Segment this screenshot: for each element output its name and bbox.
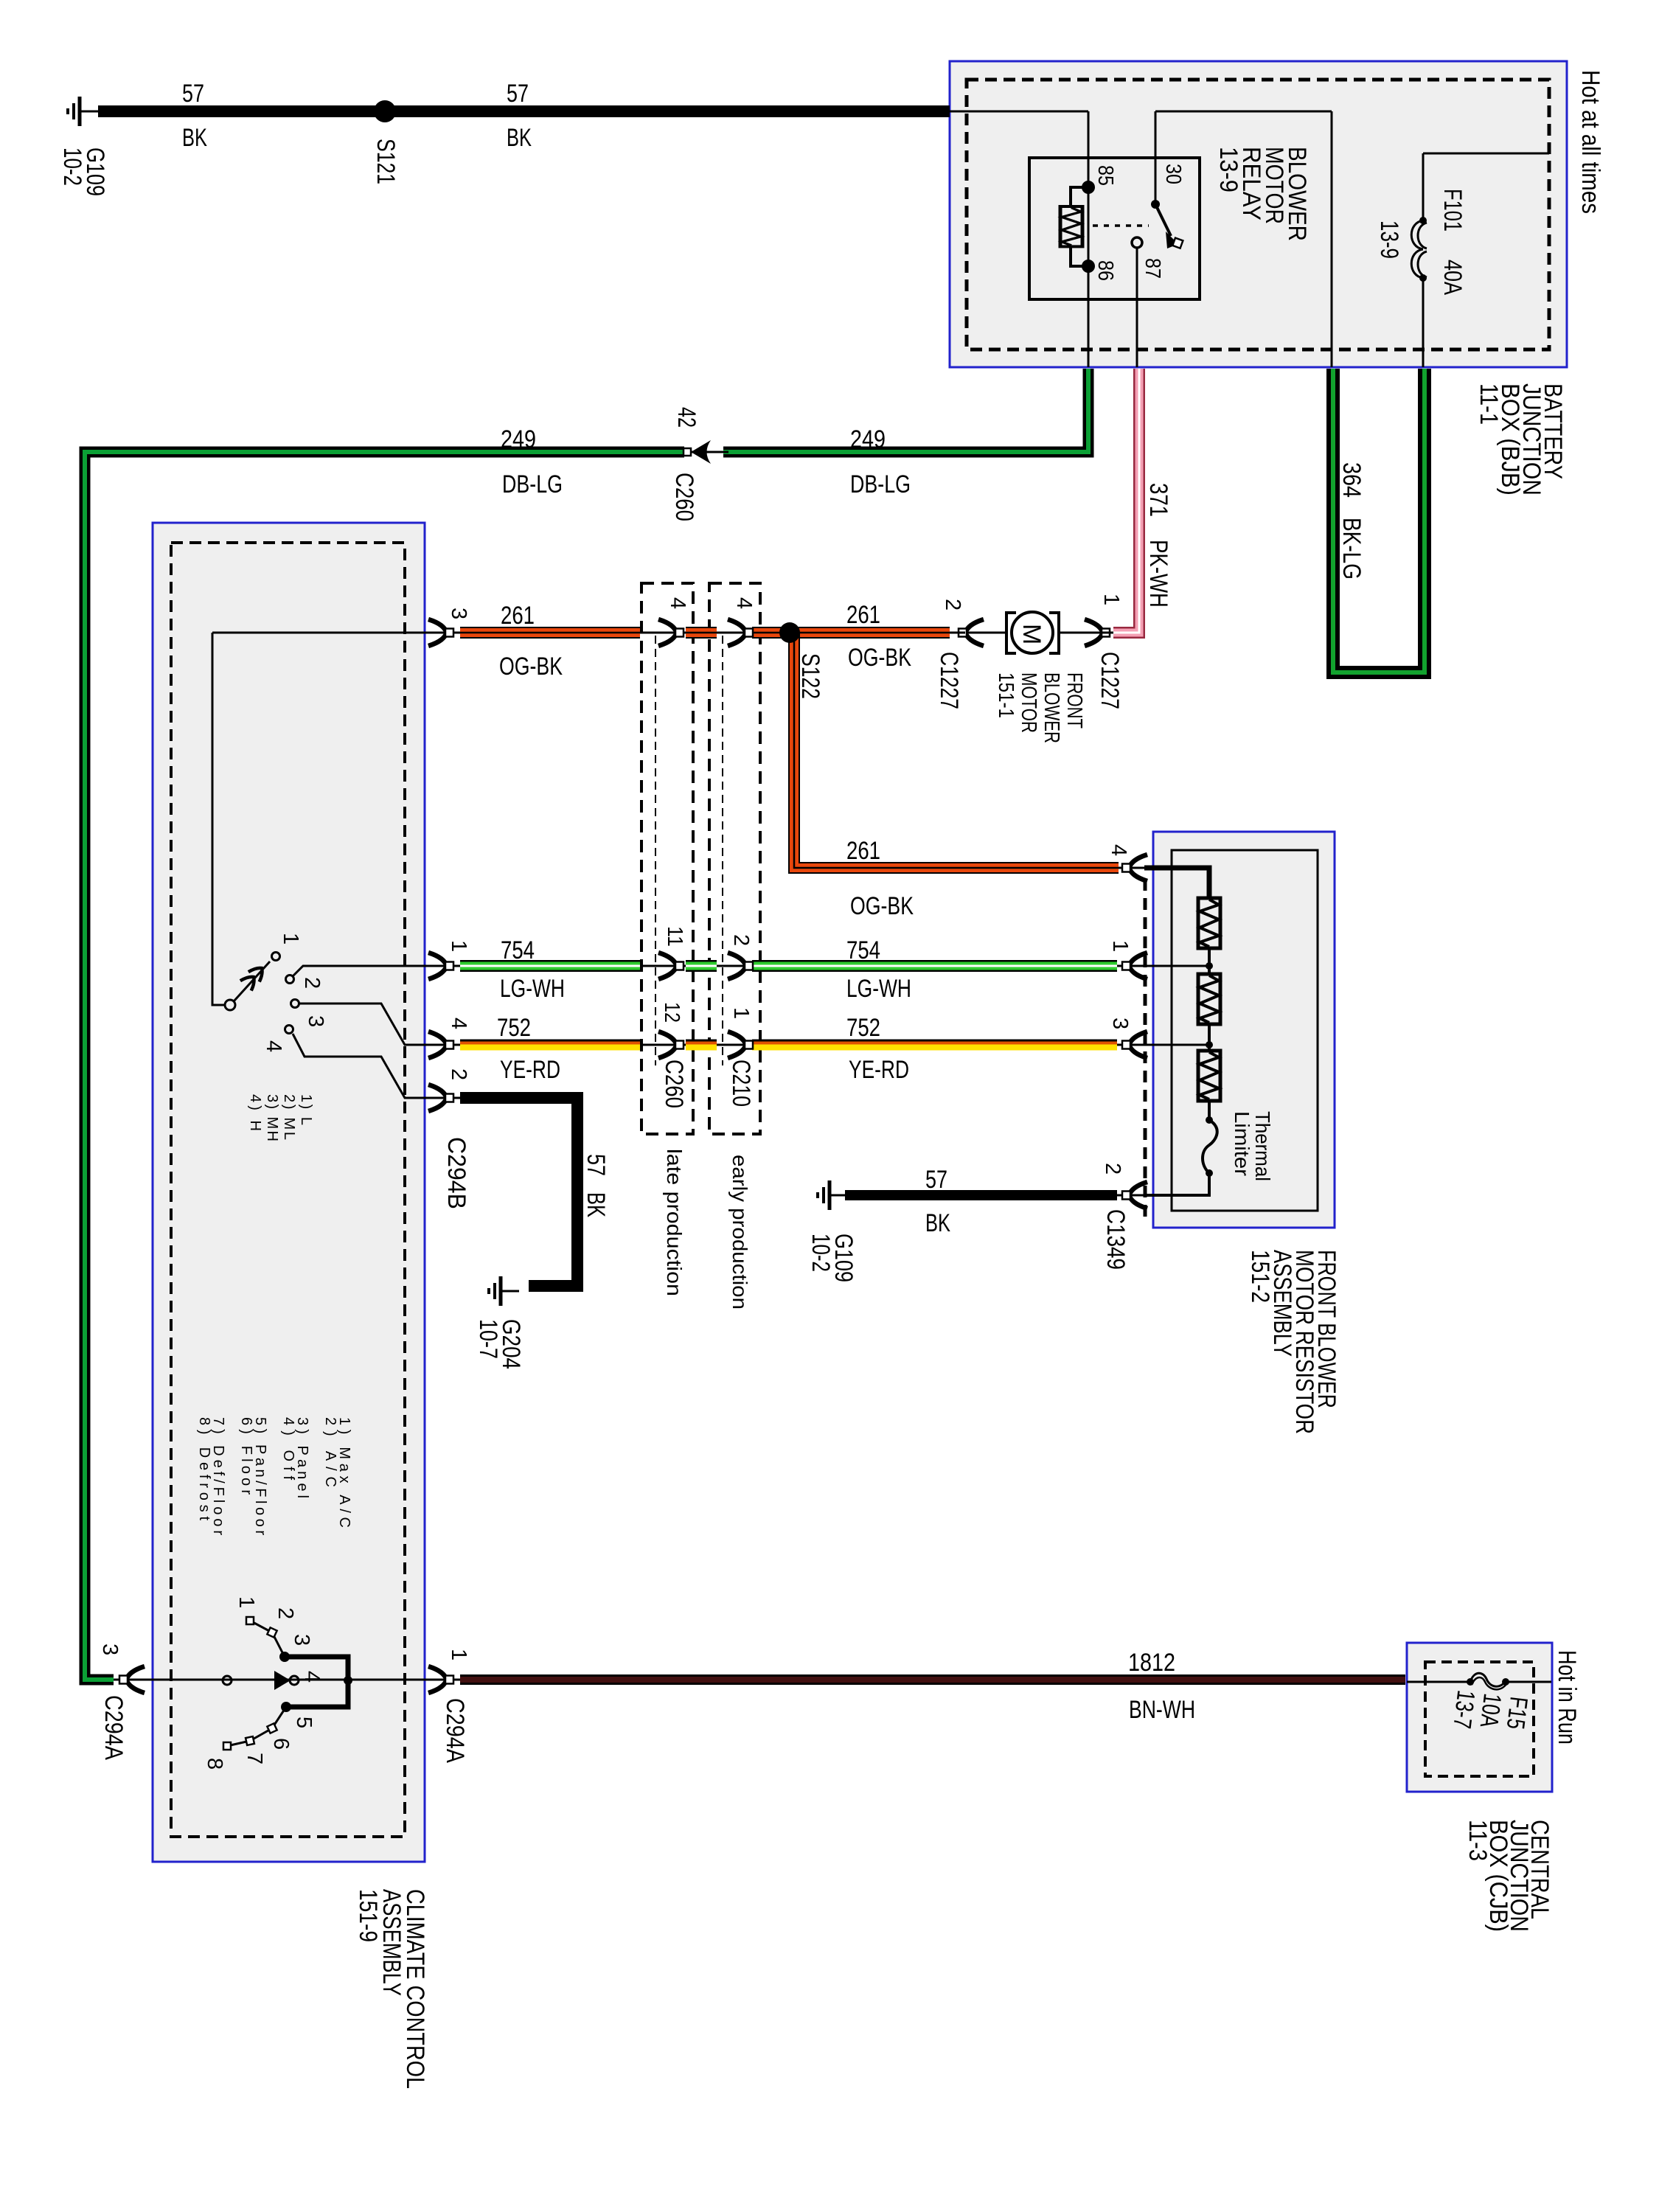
svg-text:4: 4: [1107, 844, 1130, 856]
svg-text:371: 371: [1144, 483, 1172, 517]
svg-text:2: 2: [447, 1068, 470, 1080]
svg-text:13-9: 13-9: [1214, 147, 1242, 192]
svg-text:BLOWER: BLOWER: [1040, 672, 1063, 743]
svg-text:2) ML: 2) ML: [281, 1094, 297, 1140]
svg-text:BK-LG: BK-LG: [1338, 518, 1366, 580]
svg-text:C1349: C1349: [1102, 1209, 1130, 1270]
ground G204: [489, 1276, 519, 1306]
svg-text:1: 1: [279, 933, 302, 945]
svg-text:4: 4: [666, 597, 689, 609]
svg-text:3: 3: [447, 608, 470, 619]
svg-text:7: 7: [243, 1753, 266, 1764]
svg-text:10-7: 10-7: [474, 1319, 502, 1359]
svg-text:early production: early production: [728, 1155, 751, 1310]
resistor R1: [1198, 898, 1220, 948]
fan contact 3: [291, 1000, 299, 1008]
fan switch feed wire: [212, 633, 430, 1005]
front blower motor: [1006, 613, 1016, 653]
svg-text:261: 261: [846, 837, 880, 865]
mode contact 5: [281, 1702, 291, 1712]
svg-text:4: 4: [262, 1040, 285, 1052]
label climate control assembly: [354, 1889, 429, 2089]
wire contact3 to pin4: [299, 1004, 430, 1045]
svg-text:3: 3: [290, 1634, 313, 1646]
svg-text:752: 752: [497, 1014, 531, 1042]
front blower motor resistor assembly box: [1153, 832, 1335, 1228]
svg-text:11: 11: [663, 926, 686, 947]
svg-text:F101: F101: [1439, 189, 1467, 232]
fan contact 4: [285, 1026, 293, 1034]
svg-text:12: 12: [660, 1002, 684, 1023]
svg-text:M: M: [1018, 624, 1046, 644]
wire 57 BK top: [98, 105, 950, 117]
relay switch arm: [1155, 204, 1171, 236]
wire 1812 BN-WH: [460, 1674, 1405, 1685]
wire: fuse F101 feed: [1423, 153, 1549, 367]
svg-text:2: 2: [274, 1607, 297, 1619]
svg-text:57: 57: [582, 1154, 610, 1176]
svg-text:LG-WH: LG-WH: [846, 975, 911, 1003]
mode switch wiper: [274, 1671, 291, 1690]
svg-text:13-9: 13-9: [1375, 220, 1403, 259]
climate box pin arrows: [428, 619, 453, 646]
svg-text:S122: S122: [796, 653, 824, 699]
svg-text:86: 86: [1093, 260, 1117, 281]
svg-text:40A: 40A: [1439, 260, 1467, 295]
svg-text:249: 249: [850, 425, 886, 453]
svg-text:151-1: 151-1: [994, 672, 1018, 718]
svg-text:C294A: C294A: [100, 1695, 128, 1760]
relay pin 87: [1132, 237, 1142, 248]
mode contact arc bottom: [227, 1707, 286, 1746]
wire 752 YE-RD: [460, 1040, 640, 1042]
relay pin 30 contact: [1151, 200, 1160, 209]
ground G109 top left: [68, 97, 98, 126]
svg-text:4: 4: [732, 597, 756, 609]
svg-text:C1227: C1227: [935, 652, 963, 709]
svg-text:BN-WH: BN-WH: [1129, 1696, 1195, 1724]
svg-text:C260: C260: [670, 473, 698, 521]
svg-text:2: 2: [941, 599, 964, 611]
fuse F15 wiring: [1407, 1681, 1551, 1683]
wire thin line C1227 left to motor: [965, 632, 1102, 634]
relay dashed actuator line: [1093, 224, 1149, 227]
svg-text:10-2: 10-2: [58, 147, 86, 186]
svg-text:C294A: C294A: [441, 1698, 469, 1763]
label fuse F15: [1447, 1688, 1533, 1736]
fan switch arm: [234, 961, 270, 1001]
svg-text:PK-WH: PK-WH: [1144, 540, 1172, 608]
connector arrows on 261: [658, 619, 684, 646]
ground G109 10-2: [818, 1180, 848, 1210]
splice S121: [374, 100, 396, 122]
wire 261 OG-BK drop to resistor assembly: [794, 633, 1119, 868]
battery junction box BJB: [950, 61, 1567, 367]
svg-text:C210: C210: [727, 1060, 755, 1107]
wire contact2 to pin1: [293, 966, 430, 976]
svg-text:1: 1: [729, 1007, 753, 1019]
mode contact 3: [279, 1652, 290, 1662]
svg-text:BK: BK: [582, 1192, 610, 1217]
svg-text:BK: BK: [182, 124, 207, 152]
svg-text:3: 3: [304, 1015, 327, 1027]
wire 249 DB-LG left segment down to C294A: [85, 452, 684, 1680]
svg-text:OG-BK: OG-BK: [848, 644, 911, 672]
svg-text:87: 87: [1141, 258, 1164, 279]
fuse F101: [1411, 220, 1423, 249]
svg-text:42: 42: [672, 407, 700, 428]
mode contact arc top: [250, 1621, 285, 1657]
svg-text:151-9: 151-9: [354, 1889, 382, 1942]
svg-text:OG-BK: OG-BK: [499, 653, 563, 681]
wire 364 BK-LG loop: [1333, 369, 1425, 672]
svg-text:C294B: C294B: [442, 1137, 470, 1209]
svg-text:3: 3: [98, 1644, 122, 1655]
svg-text:10-2: 10-2: [807, 1234, 835, 1272]
dashed line at resistor assembly: [1144, 879, 1147, 1220]
svg-text:MOTOR: MOTOR: [1017, 672, 1040, 733]
relay pin 85: [1082, 181, 1095, 194]
svg-text:1: 1: [1099, 594, 1123, 605]
svg-text:2: 2: [729, 934, 753, 946]
svg-text:261: 261: [846, 601, 880, 629]
relay pin 86: [1082, 260, 1095, 273]
wire: relay pin 30 to BJB internal bus: [1155, 111, 1332, 367]
svg-text:11-3: 11-3: [1464, 1820, 1492, 1861]
svg-text:LG-WH: LG-WH: [500, 975, 565, 1003]
label front blower motor: [994, 672, 1086, 743]
svg-text:BK: BK: [507, 124, 532, 152]
svg-text:3) MH: 3) MH: [264, 1094, 280, 1141]
central junction box CJB: [1407, 1643, 1552, 1792]
resistor tap 754: [1122, 953, 1147, 979]
relay coil: [1071, 187, 1088, 266]
svg-text:261: 261: [501, 602, 535, 630]
svg-text:2: 2: [1101, 1163, 1124, 1175]
wire 57 BK to G204: [460, 1098, 577, 1286]
svg-text:1: 1: [1108, 940, 1132, 952]
svg-text:C260: C260: [660, 1060, 688, 1108]
wire 57 BK resistor ground: [845, 1190, 1117, 1200]
svg-text:57: 57: [925, 1166, 947, 1194]
svg-text:2: 2: [300, 977, 324, 989]
relay box: blower motor relay: [1029, 158, 1200, 299]
svg-text:30: 30: [1161, 164, 1185, 184]
wire 261 OG-BK from climate box: [460, 627, 640, 639]
svg-text:YE-RD: YE-RD: [849, 1056, 909, 1084]
wire 249 DB-LG right segment: [723, 369, 1088, 452]
connector C260 dashed box: [641, 583, 693, 1134]
svg-text:1: 1: [447, 940, 470, 952]
mode switch horizontal wire: [140, 1679, 430, 1681]
svg-text:754: 754: [501, 936, 535, 964]
svg-text:6: 6: [269, 1738, 293, 1750]
svg-text:11-1: 11-1: [1475, 383, 1503, 425]
resistor R2: [1198, 974, 1220, 1024]
svg-text:752: 752: [846, 1014, 880, 1042]
fan contact 1: [272, 953, 280, 961]
svg-text:4) H: 4) H: [247, 1094, 263, 1131]
mode thick link 3-5: [285, 1657, 348, 1707]
svg-text:Thermal: Thermal: [1251, 1111, 1274, 1181]
svg-text:249: 249: [501, 425, 536, 453]
resistor feed 261: [1122, 855, 1147, 881]
label thermal limiter: [1231, 1111, 1274, 1181]
resistor R3: [1198, 1051, 1220, 1101]
label CJB: [1464, 1820, 1554, 1932]
svg-text:C1227: C1227: [1096, 652, 1124, 709]
fan contact 2: [286, 975, 294, 984]
svg-text:57: 57: [182, 80, 204, 108]
splice S122: [779, 622, 800, 643]
svg-text:151-2: 151-2: [1246, 1250, 1274, 1303]
label resistor assembly: [1246, 1250, 1340, 1434]
climate control assembly box: [153, 523, 425, 1862]
svg-text:3: 3: [1108, 1018, 1132, 1029]
label fan speed list: [247, 1094, 314, 1141]
svg-text:85: 85: [1093, 165, 1117, 186]
fan switch pivot: [225, 1000, 235, 1010]
svg-text:8) Defrost: 8) Defrost: [196, 1417, 212, 1520]
wire thin links at connectors: [640, 633, 752, 1045]
svg-text:1812: 1812: [1128, 1649, 1175, 1677]
svg-text:DB-LG: DB-LG: [850, 470, 911, 498]
connector C210 dashed box: [709, 583, 760, 1134]
svg-text:Hot at all times: Hot at all times: [1576, 70, 1604, 214]
svg-text:DB-LG: DB-LG: [502, 470, 563, 498]
svg-text:OG-BK: OG-BK: [850, 892, 914, 920]
svg-text:5: 5: [292, 1717, 316, 1728]
connector C260 inline arrow on 249: [684, 451, 723, 453]
label relay: [1214, 147, 1311, 241]
svg-text:364: 364: [1338, 462, 1366, 498]
svg-text:S121: S121: [372, 139, 400, 184]
wire 371 PK-WH: [1113, 369, 1139, 633]
svg-text:Hot in Run: Hot in Run: [1553, 1650, 1581, 1745]
svg-text:Limiter: Limiter: [1231, 1111, 1253, 1176]
resistor tap 752: [1122, 1032, 1147, 1058]
thin dashed connector lines: [655, 636, 656, 1065]
svg-text:13-7: 13-7: [1447, 1688, 1480, 1730]
fuse F15: [1470, 1673, 1506, 1686]
label mode positions list: [196, 1417, 352, 1535]
svg-text:late production: late production: [663, 1149, 686, 1296]
svg-text:1: 1: [447, 1649, 470, 1660]
thermal limiter: [1206, 1116, 1213, 1124]
wire: BJB feed to relay pin 85: [950, 111, 1088, 367]
svg-text:FRONT: FRONT: [1062, 672, 1086, 728]
wire contact4 to pin2: [293, 1034, 430, 1098]
svg-text:YE-RD: YE-RD: [500, 1056, 560, 1084]
wire 754 LG-WH: [460, 960, 640, 972]
svg-text:4: 4: [447, 1018, 470, 1029]
svg-text:4: 4: [300, 1671, 324, 1683]
svg-text:8: 8: [203, 1758, 226, 1770]
svg-text:754: 754: [846, 936, 880, 964]
svg-text:57: 57: [507, 80, 529, 108]
svg-text:BK: BK: [925, 1209, 950, 1237]
svg-text:1: 1: [234, 1596, 258, 1608]
